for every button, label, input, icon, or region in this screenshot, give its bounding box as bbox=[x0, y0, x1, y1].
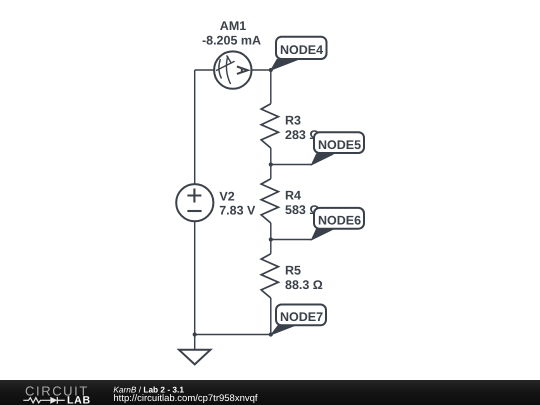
junction node (node5) bbox=[269, 162, 273, 166]
svg-text:NODE6: NODE6 bbox=[318, 214, 361, 228]
wire stub node6 bbox=[271, 239, 312, 241]
svg-text:http://circuitlab.com/cp7tr958: http://circuitlab.com/cp7tr958xnvqf bbox=[113, 393, 258, 404]
wire right vertical segments bbox=[270, 70, 272, 335]
svg-text:-8.205 mA: -8.205 mA bbox=[202, 34, 261, 48]
svg-text:V2: V2 bbox=[219, 189, 234, 203]
svg-text:88.3 Ω: 88.3 Ω bbox=[285, 278, 323, 292]
junction ground node bbox=[193, 332, 197, 336]
node NODE4 flag bbox=[271, 37, 327, 70]
ammeter AM1 bbox=[214, 51, 251, 88]
node NODE7 flag bbox=[271, 305, 326, 335]
logo glyph wire resistor diode bbox=[23, 397, 65, 404]
junction node (node6) bbox=[269, 237, 273, 241]
node NODE6 flag bbox=[312, 208, 365, 240]
wire stub node5 bbox=[271, 164, 312, 166]
wire left vertical bbox=[194, 70, 196, 335]
svg-text:R5: R5 bbox=[285, 263, 301, 277]
junction node (node7) bbox=[269, 332, 273, 336]
node NODE5 flag bbox=[312, 132, 365, 165]
resistor R5 bbox=[261, 254, 278, 298]
svg-text:AM1: AM1 bbox=[220, 19, 246, 33]
svg-text:NODE7: NODE7 bbox=[280, 310, 323, 324]
svg-text:LAB: LAB bbox=[67, 394, 91, 405]
wire bottom horizontal bbox=[195, 334, 271, 336]
svg-text:R4: R4 bbox=[285, 188, 301, 202]
junction node A (node4) bbox=[269, 68, 273, 72]
resistor R4 bbox=[261, 179, 278, 223]
svg-text:7.83 V: 7.83 V bbox=[219, 204, 256, 218]
svg-text:R3: R3 bbox=[285, 113, 301, 127]
voltage source V2 bbox=[176, 184, 213, 221]
resistor R3 bbox=[261, 104, 278, 148]
ground bbox=[179, 335, 210, 365]
svg-text:NODE4: NODE4 bbox=[280, 43, 323, 57]
svg-text:NODE5: NODE5 bbox=[318, 138, 361, 152]
wire top horizontal from left corner to ammeter and node bbox=[195, 69, 271, 71]
